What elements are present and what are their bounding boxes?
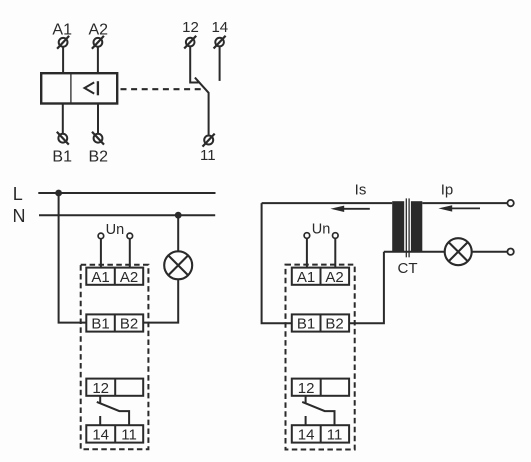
- svg-text:14: 14: [211, 19, 228, 36]
- terminal B2: [92, 132, 104, 145]
- wire CT secondary to B2: [349, 252, 384, 324]
- svg-text:12: 12: [182, 19, 199, 36]
- wire line L: [38, 192, 215, 194]
- CT core lines: [406, 198, 409, 257]
- terminal row 12 right relay: [292, 379, 349, 396]
- wire Un to A2: [129, 239, 131, 268]
- wire primary top: [422, 202, 507, 204]
- wire 14 fixed contact: [219, 47, 221, 81]
- wire A2 to box: [97, 47, 99, 73]
- svg-text:A2: A2: [89, 21, 109, 38]
- contact 12 stub right relay: [305, 396, 307, 404]
- terminal row 14 11 left relay: [86, 425, 143, 442]
- terminal row A1 A2 right relay: [292, 268, 349, 285]
- arrow Is: [330, 206, 369, 212]
- terminal B1: [57, 132, 69, 145]
- wire lamp to source terminal: [472, 251, 508, 253]
- svg-text:CT: CT: [398, 260, 418, 277]
- contact 14 stub left relay: [99, 416, 101, 425]
- dashed enclosure right relay: [286, 265, 355, 450]
- svg-text:14: 14: [298, 427, 315, 444]
- wire N to lamp: [177, 215, 179, 251]
- CT secondary winding bar: [392, 201, 404, 252]
- wire Un to A1 right relay: [306, 238, 308, 267]
- contact 12 stub left relay: [99, 396, 101, 404]
- Un source terminal left: [98, 233, 104, 239]
- terminal A1: [57, 36, 69, 49]
- terminal A2: [92, 36, 104, 49]
- lamp E1: [164, 251, 192, 279]
- contact 14 stub right relay: [305, 416, 307, 425]
- svg-text:Is: Is: [355, 181, 367, 198]
- terminal row B1 B2 right relay: [292, 314, 349, 331]
- wire L to B1: [59, 193, 87, 323]
- terminal row B1 B2 left relay: [86, 314, 143, 331]
- terminal row 12 left relay: [86, 379, 143, 396]
- source terminal bottom: [507, 249, 513, 255]
- svg-text:B1: B1: [297, 316, 315, 333]
- svg-text:L: L: [13, 184, 23, 204]
- terminal 12: [184, 36, 196, 49]
- svg-text:11: 11: [327, 427, 343, 444]
- wire line N: [39, 214, 215, 216]
- svg-text:A2: A2: [325, 269, 343, 286]
- svg-text:A1: A1: [52, 21, 72, 38]
- svg-text:B1: B1: [52, 149, 72, 166]
- Un source terminal right-right: [333, 233, 339, 239]
- wire lamp to B2: [143, 279, 178, 322]
- terminal row A1 A2 left relay: [86, 268, 143, 285]
- CT primary winding bar: [411, 201, 422, 252]
- relay function label <I: [85, 81, 98, 95]
- svg-text:12: 12: [298, 380, 315, 397]
- wire box to B1: [62, 104, 64, 134]
- wire Un to A1: [100, 239, 102, 268]
- svg-text:Ip: Ip: [441, 182, 454, 199]
- wire A1 to box: [62, 47, 64, 73]
- svg-text:Un: Un: [312, 222, 331, 238]
- wire 12 fixed contact: [190, 47, 198, 83]
- arrow Ip: [438, 205, 480, 211]
- junction on N: [175, 212, 182, 219]
- svg-text:Un: Un: [106, 222, 125, 238]
- svg-text:A1: A1: [297, 269, 315, 286]
- relay box divider: [70, 73, 72, 103]
- svg-text:11: 11: [121, 427, 137, 444]
- terminal 14: [214, 36, 226, 49]
- terminal 11: [203, 134, 215, 147]
- svg-text:A1: A1: [91, 269, 109, 286]
- dashed control link: [121, 88, 204, 90]
- wire secondary top: [262, 202, 393, 204]
- svg-text:12: 12: [92, 380, 109, 397]
- svg-text:B2: B2: [120, 316, 138, 333]
- svg-text:B2: B2: [89, 149, 109, 166]
- svg-text:N: N: [13, 206, 26, 226]
- svg-text:B2: B2: [325, 316, 343, 333]
- Un source terminal right: [127, 233, 133, 239]
- wire secondary left to B1: [262, 203, 292, 323]
- source terminal top: [507, 200, 513, 206]
- wire CT bottom to lamp: [384, 251, 445, 253]
- dashed enclosure left relay: [81, 265, 149, 449]
- svg-text:14: 14: [92, 427, 109, 444]
- wire box to B2: [97, 104, 99, 134]
- svg-text:11: 11: [200, 147, 216, 164]
- contact blade right relay: [302, 402, 334, 425]
- changeover contact blade: [195, 78, 209, 135]
- wire Un to A2 right relay: [334, 238, 336, 267]
- lamp E2: [445, 238, 472, 265]
- terminal row 14 11 right relay: [292, 425, 349, 442]
- svg-text:A2: A2: [120, 269, 138, 286]
- svg-text:B1: B1: [91, 316, 109, 333]
- relay box U1: [41, 73, 117, 103]
- Un source terminal right-left: [304, 233, 310, 239]
- junction on L: [55, 190, 62, 197]
- contact blade left relay: [97, 402, 129, 425]
